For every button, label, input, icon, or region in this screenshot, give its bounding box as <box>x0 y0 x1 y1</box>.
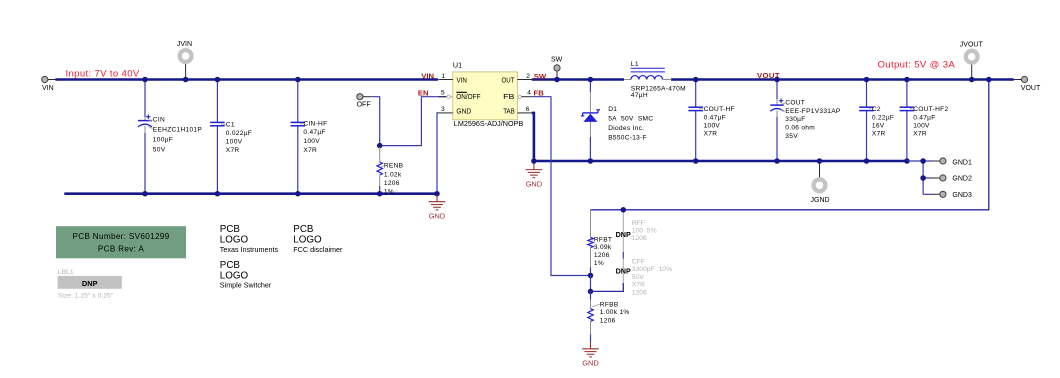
svg-text:FB: FB <box>534 88 545 97</box>
jack JGND <box>811 162 830 204</box>
terminal GND2 <box>932 175 972 183</box>
node: C2 top <box>864 77 870 83</box>
svg-text:Output: 5V @ 3A: Output: 5V @ 3A <box>878 59 956 70</box>
svg-text:Diodes Inc.: Diodes Inc. <box>608 125 644 132</box>
svg-text:GND2: GND2 <box>952 176 972 183</box>
resistor RENB <box>377 147 404 195</box>
svg-text:PCB Rev: A: PCB Rev: A <box>98 244 144 253</box>
label: PCB LOGO Simple Switcher <box>220 260 272 289</box>
svg-text:FCC disclaimer: FCC disclaimer <box>293 245 343 254</box>
capacitor CIN <box>138 81 202 193</box>
svg-text:C2: C2 <box>872 106 881 113</box>
svg-text:X7R: X7R <box>632 282 645 289</box>
node: SW junction <box>554 77 560 83</box>
svg-text:1%: 1% <box>594 260 604 267</box>
wire: DNP branch return <box>592 283 623 292</box>
svg-text:COUT-HF: COUT-HF <box>704 106 735 113</box>
svg-text:GND: GND <box>582 359 598 368</box>
svg-text:100 5%: 100 5% <box>632 228 657 235</box>
svg-text:1206: 1206 <box>632 235 647 242</box>
svg-text:VIN: VIN <box>457 76 467 85</box>
svg-text:GND1: GND1 <box>952 159 972 166</box>
node: FB tap junction <box>588 273 594 279</box>
svg-text:50V: 50V <box>632 274 645 281</box>
svg-text:X7R: X7R <box>704 130 718 137</box>
pin 4 stub with bubble <box>518 95 521 98</box>
node: RENB top junction <box>377 143 383 149</box>
svg-text:L1: L1 <box>631 61 639 68</box>
svg-text:1.00k 1%: 1.00k 1% <box>600 309 630 316</box>
svg-text:0.47µF: 0.47µF <box>704 115 726 122</box>
inductor L1 <box>624 61 686 99</box>
node: RFF top junction <box>621 207 627 213</box>
wire: EN net <box>371 97 446 146</box>
label: PCB LOGO Texas Instruments <box>220 224 279 254</box>
node: C1 bottom <box>215 191 221 197</box>
capacitor C2 <box>859 81 894 160</box>
node: COUT bottom <box>774 158 780 164</box>
svg-text:Input: 7V to 40V: Input: 7V to 40V <box>66 68 140 79</box>
wire: VOUT feedback drop (right side) <box>591 80 989 210</box>
svg-text:0.22µF: 0.22µF <box>872 115 894 122</box>
svg-text:3.09k: 3.09k <box>594 244 612 251</box>
svg-text:RENB: RENB <box>384 163 404 170</box>
svg-text:VIN: VIN <box>42 85 54 92</box>
svg-text:D1: D1 <box>608 106 617 113</box>
svg-text:1.02k: 1.02k <box>384 171 402 178</box>
terminal GND3 <box>932 191 972 199</box>
svg-text:COUT: COUT <box>785 100 805 107</box>
svg-text:RFF: RFF <box>632 220 645 227</box>
wire: divider mid segment <box>590 276 592 292</box>
node: TAB rail corner <box>531 158 537 164</box>
svg-text:JVIN: JVIN <box>177 41 192 48</box>
capacitor C1 <box>210 81 252 193</box>
svg-text:100V: 100V <box>913 122 930 129</box>
svg-text:Simple Switcher: Simple Switcher <box>220 280 272 289</box>
wire: U1 GND pin to rail <box>437 113 439 192</box>
svg-text:GND3: GND3 <box>952 192 972 199</box>
svg-text:U1: U1 <box>453 61 462 70</box>
capacitor CFF (DNP ghost) <box>616 258 673 296</box>
svg-text:ON/OFF: ON/OFF <box>456 92 481 101</box>
svg-text:47µH: 47µH <box>631 92 648 99</box>
svg-text:DNP: DNP <box>82 279 98 288</box>
svg-text:Size: 1.25" x 0.25": Size: 1.25" x 0.25" <box>58 292 114 299</box>
svg-text:LOGO: LOGO <box>293 234 322 245</box>
svg-text:JGND: JGND <box>811 197 830 204</box>
svg-text:LBL1: LBL1 <box>58 269 74 276</box>
svg-text:LOGO: LOGO <box>220 234 249 245</box>
svg-text:CIN-HF: CIN-HF <box>303 120 327 127</box>
svg-text:16V: 16V <box>872 122 885 129</box>
terminal SW <box>551 57 563 79</box>
svg-text:X7R: X7R <box>872 130 886 137</box>
svg-text:3: 3 <box>441 106 445 113</box>
svg-text:EEE-FP1V331AP: EEE-FP1V331AP <box>785 108 841 115</box>
node: GND2 branch <box>920 175 926 181</box>
svg-text:3300pF 10%: 3300pF 10% <box>632 266 672 273</box>
node: CIN bottom <box>142 191 148 197</box>
svg-text:SW: SW <box>534 72 547 81</box>
node: GND rail end <box>434 191 440 197</box>
node: CIN top <box>142 77 148 83</box>
diode D1 schottky <box>581 81 653 160</box>
terminal VOUT <box>1014 76 1041 92</box>
label: PCB LOGO FCC disclaimer <box>293 224 343 254</box>
svg-text:SW: SW <box>551 57 563 64</box>
node: RENB bottom <box>377 191 383 197</box>
svg-text:X7R: X7R <box>226 147 240 154</box>
svg-text:PCB Number: SV601299: PCB Number: SV601299 <box>72 232 169 241</box>
svg-text:4: 4 <box>527 90 531 97</box>
svg-text:Texas Instruments: Texas Instruments <box>220 245 279 254</box>
wire: bottom left ground rail <box>64 192 437 195</box>
svg-text:RFBT: RFBT <box>594 236 612 243</box>
svg-text:100V: 100V <box>303 138 320 145</box>
node: CIN-HF bottom <box>295 191 301 197</box>
svg-text:100V: 100V <box>704 122 721 129</box>
svg-text:100µF: 100µF <box>153 136 173 143</box>
svg-text:X7R: X7R <box>913 130 927 137</box>
node: C1 top <box>215 77 221 83</box>
svg-text:GND: GND <box>429 212 445 221</box>
svg-text:50V: 50V <box>153 146 166 153</box>
ground symbol (U1 TAB / output gnd) <box>526 162 543 188</box>
node: COUT top <box>774 77 780 83</box>
svg-text:2: 2 <box>526 73 530 80</box>
jack JVOUT <box>960 42 984 79</box>
svg-text:CFF: CFF <box>632 258 645 265</box>
svg-text:VIN: VIN <box>421 72 434 81</box>
label: PCB number green box <box>56 226 186 258</box>
wire: top VIN rail <box>55 78 438 81</box>
svg-text:EN: EN <box>418 88 429 97</box>
svg-text:DNP: DNP <box>616 230 631 239</box>
capacitor COUT-HF <box>688 81 734 160</box>
pin 5 stub with bubble <box>439 96 447 98</box>
pin 6 stub <box>517 112 531 114</box>
terminal GND1 <box>932 158 972 166</box>
svg-text:1206: 1206 <box>384 180 400 187</box>
svg-text:0.47µF: 0.47µF <box>913 115 935 122</box>
ground symbol (feedback divider) <box>582 342 599 368</box>
node: CIN-HF top <box>295 77 301 83</box>
capacitor COUT-HF2 <box>900 81 949 160</box>
wire: VOUT rail from L1 to right <box>671 78 1014 81</box>
capacitor CIN-HF <box>291 81 328 193</box>
capacitor COUT (polarized) <box>770 81 841 160</box>
svg-text:GND: GND <box>456 107 471 116</box>
svg-text:OUT: OUT <box>502 76 516 85</box>
svg-text:0.022µF: 0.022µF <box>226 130 252 137</box>
wire: RFF-CFF mid segment <box>622 252 624 259</box>
terminal VIN <box>42 76 56 92</box>
svg-text:1206: 1206 <box>632 290 647 297</box>
node: C2 bottom <box>864 158 870 164</box>
svg-text:EEHZC1H101P: EEHZC1H101P <box>153 127 203 134</box>
svg-text:5A 50V SMC: 5A 50V SMC <box>608 116 653 123</box>
resistor RFF (DNP ghost) <box>616 211 657 252</box>
svg-text:0.06 ohm: 0.06 ohm <box>785 125 815 132</box>
node: D1 bottom <box>588 158 594 164</box>
wire: SW rail from U1 OUT to L1 <box>532 78 624 81</box>
node: GND1 branch <box>920 158 926 164</box>
resistor RFBT <box>588 210 612 276</box>
resistor RFBB <box>588 291 630 342</box>
svg-text:1206: 1206 <box>594 252 610 259</box>
svg-text:JVOUT: JVOUT <box>960 42 984 49</box>
node: JGND junction <box>817 158 823 164</box>
jack JVIN <box>177 41 192 79</box>
node: D1 top <box>588 77 594 83</box>
svg-text:5: 5 <box>441 90 445 97</box>
node: DNP branch junction <box>588 289 594 295</box>
pin 3 stub <box>439 112 453 114</box>
svg-text:RFBB: RFBB <box>600 301 619 308</box>
wire: FB net <box>532 97 589 276</box>
svg-text:FB: FB <box>503 92 514 101</box>
svg-text:1: 1 <box>442 73 446 80</box>
svg-text:TAB: TAB <box>503 107 515 116</box>
svg-text:1206: 1206 <box>600 317 616 324</box>
node: COUT-HF2 top <box>904 77 910 83</box>
svg-text:0.47µF: 0.47µF <box>303 129 325 136</box>
wire: output ground rail <box>534 160 908 163</box>
svg-text:VOUT: VOUT <box>1021 85 1041 92</box>
terminal OFF <box>357 94 372 109</box>
op-amp U1 LM2596S regulator box <box>453 61 524 128</box>
pin 2 stub <box>517 79 531 81</box>
svg-text:COUT-HF2: COUT-HF2 <box>913 106 948 113</box>
svg-text:35V: 35V <box>785 133 798 140</box>
svg-text:C1: C1 <box>226 122 235 129</box>
wire: gnd terminals branch <box>908 160 932 162</box>
svg-text:LM2596S-ADJ/NOPB: LM2596S-ADJ/NOPB <box>454 119 524 128</box>
node: COUT-HF bottom <box>693 158 699 164</box>
node: JVOUT junction <box>969 77 975 83</box>
svg-text:OFF: OFF <box>357 102 371 109</box>
node: feedback corner junction <box>986 77 992 83</box>
node: COUT-HF top <box>693 77 699 83</box>
svg-text:100V: 100V <box>226 139 243 146</box>
svg-text:1%: 1% <box>384 188 394 195</box>
pin 1 stub <box>439 79 453 81</box>
svg-text:GND: GND <box>526 179 542 188</box>
svg-text:B550C-13-F: B550C-13-F <box>608 134 647 141</box>
svg-text:DNP: DNP <box>616 266 631 275</box>
wire: TAB to ground rail (thick) <box>532 113 534 161</box>
ground symbol (input section) <box>429 195 446 221</box>
node: JVIN junction <box>183 77 189 83</box>
svg-text:330µF: 330µF <box>785 116 805 123</box>
svg-text:6: 6 <box>526 106 530 113</box>
label: LBL1 DNP box <box>58 269 122 300</box>
svg-text:CIN: CIN <box>153 117 165 124</box>
svg-text:PCB: PCB <box>220 260 241 271</box>
node: COUT-HF2 bottom (rail end) <box>904 158 910 164</box>
svg-text:X7R: X7R <box>303 147 317 154</box>
